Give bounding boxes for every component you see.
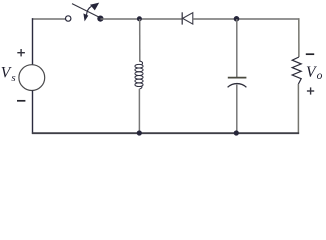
switch S open terminal (circle): [66, 16, 71, 21]
label - (source polarity): [17, 100, 25, 102]
node: junction inductor bottom: [137, 130, 142, 135]
label + (output polarity): [307, 87, 314, 94]
voltage source Vs (circle): [19, 65, 45, 91]
capacitor C top plate: [228, 77, 247, 79]
wire: top rail segment B (switch to diode): [100, 18, 181, 20]
svg-text:s: s: [11, 72, 15, 84]
wire: inductor top lead: [139, 19, 141, 62]
wire: left column bottom (source to bottom rail): [32, 90, 34, 133]
wire: left column top (source to rail): [32, 18, 34, 65]
svg-text:V: V: [306, 64, 317, 81]
svg-text:o: o: [317, 70, 323, 82]
wire: capacitor top lead: [236, 19, 238, 77]
diode D triangle: [183, 13, 193, 24]
wire: top rail segment C (diode to right corner): [193, 18, 300, 20]
switch S actuation curved arrow: [83, 3, 99, 22]
node: junction capacitor top: [234, 16, 240, 22]
wire: top rail left segment: [32, 18, 66, 20]
label - (output polarity): [306, 53, 314, 55]
wire: right column top: [298, 18, 300, 57]
wire: bottom rail: [32, 132, 299, 134]
resistor R load (zigzag): [292, 57, 301, 84]
wire: capacitor bottom lead: [236, 85, 238, 134]
node: junction inductor top: [137, 16, 142, 21]
diode D cathode bar: [181, 12, 183, 24]
wire: right column bottom: [297, 84, 299, 134]
wire: inductor bottom lead: [138, 89, 140, 134]
svg-text:V: V: [1, 65, 12, 82]
inductor L (coil): [135, 61, 143, 89]
capacitor C bottom plate (curved): [228, 84, 247, 88]
node: junction at switch output: [97, 16, 103, 22]
node: junction capacitor bottom: [234, 130, 239, 135]
switch S blade (open): [72, 4, 100, 18]
label + (source polarity): [17, 49, 25, 56]
